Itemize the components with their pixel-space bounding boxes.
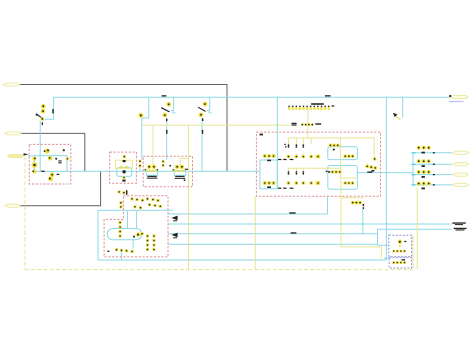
wire box5 feeder1 <box>288 137 375 139</box>
connector XR3 <box>453 173 469 176</box>
wire bottom bus L5 <box>98 259 386 261</box>
box3 mid fuse <box>162 160 171 167</box>
box7 upper components <box>392 240 406 253</box>
connector X4 <box>5 204 21 207</box>
wire N from connector X4 <box>20 171 101 205</box>
connector XR2 <box>453 163 469 166</box>
wire L2 from connector X2 <box>21 133 85 171</box>
node panel box2 <box>110 152 137 183</box>
wire drop7 <box>402 97 404 117</box>
wire Y1 drop g2 <box>180 159 189 166</box>
rows group R1 <box>412 146 436 154</box>
node panel box1 <box>29 144 71 184</box>
wire dashed ground vertical <box>24 157 26 270</box>
label box5 out line <box>367 172 372 173</box>
terminal strip row2 labels <box>292 123 322 126</box>
wire rows down right <box>416 187 418 270</box>
relay star K1 <box>133 232 144 238</box>
box3 transformer T1 <box>145 165 159 179</box>
terminal strip row2 squares XT2 <box>301 123 313 126</box>
rows group R3 <box>412 170 436 178</box>
wire box4 inner v3 <box>132 240 134 249</box>
wire QF1 to box3 <box>166 118 168 160</box>
wire drop5 through box5 <box>276 97 278 189</box>
box5 upper fuse row <box>287 155 321 159</box>
GRAY-WIRES <box>20 85 228 206</box>
wire comp below box5 feed <box>341 197 363 199</box>
label L1 <box>289 212 295 213</box>
box5 corner label <box>260 134 264 136</box>
label L3 <box>291 232 297 233</box>
connector X3 filled <box>7 155 23 158</box>
box5 upper wire labels <box>278 159 293 160</box>
wire L1 from connector X1 <box>20 85 228 172</box>
label L2b end <box>454 228 467 231</box>
label bus A mid <box>325 95 331 96</box>
fuse FU1 on drop2 <box>138 113 143 167</box>
box7 lower components <box>392 259 406 264</box>
wire Y1 <box>142 124 290 126</box>
wire box7 right frame <box>412 236 414 268</box>
coil K1 racetrack <box>107 229 141 240</box>
wire below box5 mid <box>341 178 381 259</box>
box5 right breaker group <box>365 157 377 171</box>
connector X3 arrow tip <box>24 153 29 156</box>
box5 left isolator lower <box>263 181 276 188</box>
node box5 contactor frame KM1 <box>328 147 358 160</box>
arrow mark A2 <box>171 233 177 239</box>
wire row3 <box>413 174 452 176</box>
wire drop6 long right <box>385 97 387 260</box>
node box3 CT frame 2 <box>174 171 185 175</box>
connector XR0 bus A right <box>450 95 468 98</box>
wire drop to QF0 <box>45 97 54 119</box>
wire box7 stub <box>384 257 389 259</box>
wire box5 feeder2 <box>288 167 341 169</box>
box5 KM1 contacts <box>329 144 355 159</box>
box5 left isolator upper <box>263 154 276 161</box>
wire box4 inner v1 <box>127 211 129 229</box>
wire bus A <box>54 96 450 98</box>
wire row4 <box>413 184 452 186</box>
terminal strip row1 <box>311 103 334 106</box>
wire rows vertical <box>412 153 414 185</box>
box4 left column <box>119 221 122 238</box>
wire feeder2 drops <box>289 168 304 171</box>
box5 upper contact pairs <box>284 144 304 148</box>
wire box4 bottom drop <box>120 249 122 260</box>
wire row1 <box>413 152 452 154</box>
arrow mark A1 <box>171 216 177 222</box>
label bus A right dot <box>449 95 451 97</box>
wire QF2 to bus B <box>201 118 203 171</box>
box2 components <box>120 155 128 182</box>
box3 transformer T2 <box>173 165 189 181</box>
node panel box3 <box>143 156 192 186</box>
label bus A left <box>162 95 167 96</box>
wire L2 bottom <box>168 223 452 225</box>
wire terminal vertical <box>307 110 309 138</box>
breaker QF2 <box>198 102 212 134</box>
rows group R4 <box>412 181 436 189</box>
wire L1 bottom <box>168 196 328 214</box>
wire feeder1 drops <box>289 138 312 144</box>
wire FU1 to bus B <box>139 168 141 172</box>
breaker QF1 <box>161 102 175 134</box>
arrow label drop7 <box>393 113 400 120</box>
connector X1 <box>3 83 20 86</box>
node box2 inner frame <box>117 168 132 177</box>
wire entry stub box1 <box>28 155 34 157</box>
wire drop QF2 <box>207 97 210 110</box>
box5 lower fuse row <box>287 181 321 185</box>
wire Y1 drop g1 <box>152 125 154 165</box>
label wire number drop1 <box>52 109 53 113</box>
wire box5 mid vertical <box>341 138 358 178</box>
wire drop QF1 <box>171 97 174 110</box>
node box1 inner frame <box>34 156 67 172</box>
label L2 end <box>452 222 466 225</box>
box4 right columns <box>146 235 156 252</box>
label under connector XR0 <box>449 101 464 102</box>
wire feeder1 right drop <box>373 138 375 157</box>
connector X2 <box>5 132 22 135</box>
wire box5 output to rows <box>357 172 413 174</box>
node panel box4 <box>104 196 168 257</box>
node PLC box lower <box>389 258 412 268</box>
wire L3 bottom <box>168 233 378 235</box>
breaker QF0 <box>36 104 46 125</box>
terminal strip row1 squares XT1 <box>288 106 330 110</box>
node PLC box upper <box>389 235 412 256</box>
connector XR4 <box>453 183 469 186</box>
wire Y1 long drop <box>188 125 190 270</box>
CONNECTORS <box>3 83 469 207</box>
box4 components top <box>118 190 162 209</box>
connector XR1 <box>453 151 469 154</box>
rows group R2 <box>412 159 436 167</box>
wire below box5 left <box>254 196 256 269</box>
node box5 left frame <box>260 160 277 189</box>
node box3 CT frame 1 <box>146 171 157 175</box>
node box2 yellow frame <box>116 160 133 168</box>
box5 lower wire labels <box>278 188 293 189</box>
wire row2 <box>413 163 452 165</box>
DASHED-BLUE-BOXES <box>389 235 412 268</box>
wire drop2 to FU1 <box>142 97 149 159</box>
wire comp below box5 drop <box>362 209 364 234</box>
DASHED-RED-BOXES <box>29 132 380 257</box>
YELLOW-WIRES <box>25 110 417 270</box>
CYAN-WIRES <box>28 97 452 260</box>
box1 components <box>32 148 70 181</box>
node box5 contactor frame KM2 <box>328 166 358 190</box>
wire L2b bottom <box>378 228 452 230</box>
wire box4 loop top <box>98 209 173 211</box>
wire box4 inner v2 <box>136 211 138 229</box>
comp below box5 <box>351 201 364 209</box>
wire L4 bottom <box>168 229 389 245</box>
node panel box5 <box>256 132 380 196</box>
wire bus B <box>67 170 260 172</box>
wire QF0 to box1 <box>39 121 41 171</box>
wire box4 loop left <box>97 210 99 260</box>
box4 bottom row <box>108 248 134 253</box>
box5 KM2 contacts <box>326 170 355 185</box>
box5 lower contact pairs <box>288 171 305 175</box>
wire dashed ground horizontal <box>25 269 413 271</box>
